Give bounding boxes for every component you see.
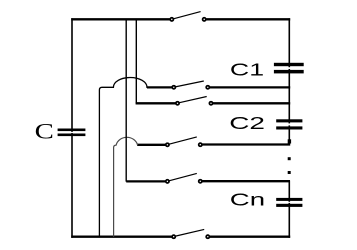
switch S0 blade (top wire) — [172, 12, 201, 20]
switch Sb blade (bottom wire) — [174, 229, 204, 236]
wire top-left segment — [71, 18, 170, 20]
ellipsis dot upper — [288, 157, 291, 160]
capacitor Cn plates — [276, 198, 302, 201]
switch S0 contact left — [170, 18, 173, 21]
wire left bus lower (cap C to bottom) — [71, 133, 73, 238]
switch SA blade — [168, 137, 197, 145]
switch S2 contact left — [176, 102, 179, 105]
wire bottom-left segment — [71, 236, 171, 238]
capacitor C1 plates — [274, 63, 304, 66]
switch S2 blade — [178, 97, 207, 104]
wire jumper J2 (bottom node up to WA with hump) — [114, 137, 138, 236]
switch S2 contact right — [209, 102, 212, 105]
switch S1 blade — [174, 81, 204, 87]
wire WA left horizontal — [137, 144, 167, 146]
wire right bus WB-to-Cn — [288, 181, 290, 202]
junction dot WA-bus — [288, 139, 291, 143]
svg-text:C2: C2 — [229, 113, 265, 133]
wire W2 right horizontal — [211, 102, 290, 104]
switch SB contact right — [199, 180, 202, 183]
wire W1 left horizontal — [147, 86, 174, 88]
wire W1 right horizontal — [208, 86, 290, 88]
capacitor C2 plates — [276, 119, 302, 122]
switch SA contact left — [166, 143, 169, 146]
wire top-right segment — [206, 18, 290, 20]
wire W2 left horizontal — [136, 102, 178, 104]
switch SB blade — [168, 173, 197, 181]
wire right bus Cn-to-bottom — [288, 203, 290, 238]
svg-text:Cn: Cn — [230, 190, 265, 210]
capacitor C plates — [58, 129, 86, 132]
wire right bus C2-to-WA nub — [288, 125, 290, 144]
wire drop D1 (top node down to WB) — [125, 19, 127, 181]
wire left bus upper (node top to cap C) — [71, 18, 73, 132]
switch S1 contact right — [206, 86, 209, 89]
svg-text:C: C — [35, 119, 54, 144]
switch SA contact right — [199, 143, 202, 146]
switch Sb contact right — [206, 235, 209, 238]
wire bottom-right segment — [208, 236, 290, 238]
wire WB left horizontal — [126, 180, 167, 182]
switch S0 contact right — [203, 18, 206, 21]
ellipsis dot lower — [288, 171, 291, 174]
wire WB right horizontal — [200, 180, 290, 182]
switch S1 contact left — [172, 86, 175, 89]
svg-text:C1: C1 — [230, 59, 264, 79]
switch Sb contact left — [172, 235, 175, 238]
wire drop D2 (top node down to W2) — [135, 19, 137, 103]
wire WA right horizontal — [200, 143, 290, 145]
wire right bus C1-C2 segment — [288, 69, 290, 123]
wire jumper J1 (bottom node up to W1 with hump) — [99, 78, 148, 237]
wire right bus top (to C1) — [288, 18, 290, 67]
switch SB contact left — [166, 180, 169, 183]
